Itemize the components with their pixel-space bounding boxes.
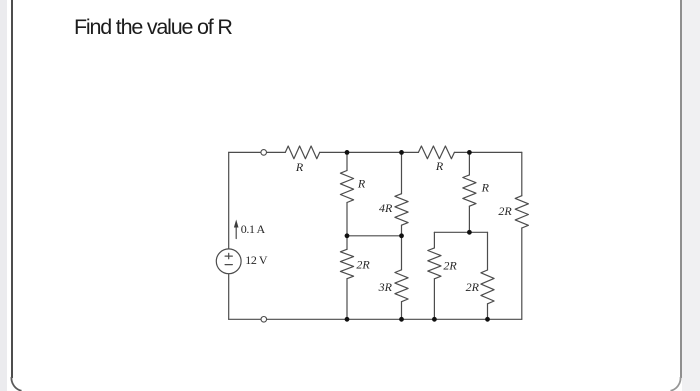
junction: bracket node (467, 230, 472, 235)
wire: top rail left segment (229, 151, 286, 153)
svg-text:R: R (481, 181, 490, 195)
resistor R (branch3) (463, 175, 476, 206)
resistor 2R (bracket right leg) (481, 270, 494, 304)
junction: top of branch1 (345, 150, 350, 155)
svg-text:4R: 4R (379, 201, 393, 215)
junction: top of branch3 (467, 150, 472, 155)
wire: branch2 bottom stub (401, 302, 403, 320)
voltage source V1 (12 V) (216, 249, 241, 274)
resistor R (branch1 upper) (340, 171, 353, 203)
left grey margin strip (0, 0, 7, 391)
wire: branch2 middle (401, 225, 403, 270)
wire: branch1 middle (346, 203, 348, 250)
junction: bottom of bracket left leg (432, 317, 437, 322)
junction: bottom of branch2 (399, 317, 404, 322)
wire: bracket right leg lower (487, 304, 489, 320)
junction: top of branch2 (399, 150, 404, 155)
svg-text:12 V: 12 V (245, 253, 268, 267)
wire: bracket right leg upper (487, 232, 489, 270)
junction: bottom of branch1 (345, 317, 350, 322)
svg-text:2R: 2R (466, 280, 480, 294)
wire: bracket left leg upper (433, 232, 435, 248)
wire: branch1 bottom stub (346, 279, 348, 320)
resistor 4R (branch2 upper) (395, 194, 408, 226)
wire: bottom rail (229, 318, 522, 320)
terminal node (open circle, top) (261, 150, 267, 156)
terminal node (open circle, bottom) (261, 317, 267, 323)
junction: bottom of bracket right leg (485, 317, 490, 322)
svg-text:2R: 2R (498, 204, 512, 218)
right grey margin strip (682, 0, 700, 391)
wire: bracket tie (434, 231, 487, 233)
resistor R (top-right horizontal) (418, 146, 454, 159)
svg-text:2R: 2R (356, 258, 370, 272)
svg-text:R: R (357, 176, 366, 190)
resistor 2R (right rail) (515, 196, 528, 228)
wire: branch1 upper stub (346, 152, 348, 170)
resistor 2R (branch1 lower) (340, 249, 353, 278)
junction: branch2 mid (399, 233, 404, 238)
svg-text:R: R (435, 159, 444, 173)
resistor 3R (branch2 lower) (395, 270, 408, 302)
wire: branch3 upper stub (468, 152, 470, 175)
wire: top rail middle segment (320, 151, 419, 153)
wire: branch3 lower stub to bracket (468, 206, 470, 232)
resistor R (top-left horizontal) (285, 146, 319, 159)
current source arrow 0.1 A (234, 220, 239, 239)
svg-text:0.1 A: 0.1 A (241, 222, 266, 236)
wire: left rail (source branch) (228, 152, 230, 319)
svg-text:2R: 2R (443, 259, 457, 273)
junction: branch1 mid (345, 233, 350, 238)
wire: right rail upper (521, 152, 523, 195)
question text (74, 14, 232, 40)
wire: middle tie between branch1 and branch2 (347, 235, 402, 237)
resistor 2R (bracket left leg) (428, 248, 441, 279)
card bottom-left corner arc (11, 377, 21, 391)
card bottom-right corner arc (671, 377, 681, 391)
svg-text:R: R (295, 160, 304, 174)
svg-text:3R: 3R (378, 280, 393, 294)
wire: bracket left leg lower (433, 279, 435, 320)
wire: top rail right segment (454, 151, 521, 153)
wire: branch2 upper stub (401, 152, 403, 193)
wire: right rail lower (521, 228, 523, 319)
